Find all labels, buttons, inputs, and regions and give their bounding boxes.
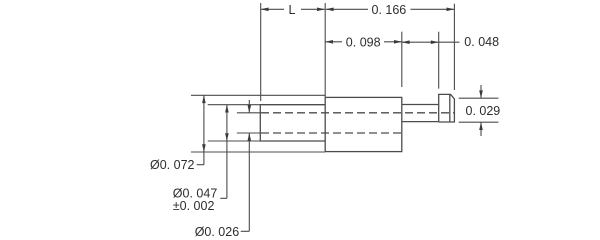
arrowhead 0.166 left [326,8,334,12]
extension line body left [324,3,326,97]
dimension line 0.048 [402,41,460,43]
arrowhead 0.098 left [325,40,333,44]
head outline [439,94,455,122]
extension lines 0.029 [459,98,499,122]
dimension line 0.098 [325,41,402,43]
arrowhead 0.098 right [394,40,402,44]
arrowhead 0.047 up [225,105,229,113]
svg-text:Ø0. 072: Ø0. 072 [150,158,195,172]
svg-text:L: L [289,3,296,17]
arrowhead 0.029 down [479,90,483,98]
arrowhead 0.026 down (outside top) [248,105,252,113]
svg-text:0. 029: 0. 029 [466,104,501,118]
svg-text:±0. 002: ±0. 002 [173,199,215,213]
arrowhead 0.026 up (outside bottom) [248,133,252,141]
extension line part right end [453,4,455,90]
arrowhead 0.047 down [225,133,229,141]
body outline [325,97,402,151]
svg-text:0. 098: 0. 098 [346,35,381,49]
dimension line dia 0.047 with elbow [220,105,227,199]
arrowhead 0.166 right [447,8,455,12]
pin outline [402,105,439,122]
extension line left of L [260,3,262,101]
extension lines dia 0.072 [191,95,325,152]
extension lines dia 0.047 [208,105,261,141]
arrowhead 0.029 up [479,122,483,130]
svg-text:0. 048: 0. 048 [464,35,499,49]
arrowhead L left [261,8,269,12]
extension stubs dia 0.026 [237,113,260,133]
arrowhead 0.072 up [202,95,206,103]
svg-text:0. 166: 0. 166 [372,3,407,17]
dimension line L [261,8,325,10]
svg-text:Ø0. 026: Ø0. 026 [195,225,240,239]
dimension line dia 0.072 with elbow [197,95,204,164]
arrowhead 0.072 down [202,144,206,152]
arrowhead 0.048 left [402,40,410,44]
shaft outline [260,105,325,141]
arrowhead 0.048 right [431,40,439,44]
dimension line 0.166 [326,8,455,10]
extension line body right [401,32,403,87]
head chamfer line [449,94,451,122]
arrowhead L right [317,8,325,12]
dimension line dia 0.026 with elbow [241,100,250,231]
hidden bore centerline upper [261,112,454,114]
extension line head left [438,32,440,89]
dimension line 0.029 [480,85,482,136]
hidden bore line lower [261,132,402,134]
